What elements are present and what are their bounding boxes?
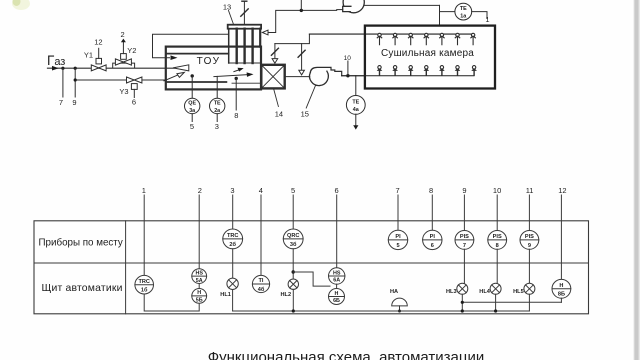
wire TE2a sample arrow <box>214 75 250 77</box>
svg-text:Y1: Y1 <box>84 51 93 60</box>
svg-text:HL3: HL3 <box>446 289 457 295</box>
wire H8B stub <box>560 298 562 302</box>
wire TE4a drop <box>355 76 357 96</box>
wire signal 4 <box>355 114 357 126</box>
wire column 7 <box>397 195 399 230</box>
wire duct into chamber <box>439 5 441 25</box>
wire lamp bus upper <box>462 301 561 303</box>
svg-text:PIS: PIS <box>493 234 502 240</box>
svg-text:PIS: PIS <box>525 234 534 240</box>
valve Y3 <box>119 77 141 107</box>
open arrow down B <box>299 70 305 75</box>
instrument TE 1a <box>440 3 490 24</box>
wire PIS9 to HL5 <box>528 249 530 283</box>
instrument HS 5A <box>192 269 207 284</box>
instrument QRC 3b <box>283 229 303 249</box>
instrument PI 6 <box>423 230 442 249</box>
svg-text:4а: 4а <box>353 107 360 113</box>
svg-text:HL2: HL2 <box>281 292 292 298</box>
wire column 1 <box>143 195 145 275</box>
svg-text:ТЕ: ТЕ <box>352 99 359 105</box>
node bus upper HL3 <box>461 301 464 304</box>
svg-text:9: 9 <box>462 186 466 195</box>
instrument PI 5 <box>388 230 407 249</box>
instrument H 6B <box>329 289 345 305</box>
wire gas main line <box>48 67 175 69</box>
svg-text:12: 12 <box>558 186 566 195</box>
svg-text:TRC: TRC <box>227 233 239 239</box>
svg-text:9: 9 <box>528 243 531 249</box>
fan top exhaust <box>337 0 440 13</box>
nozzle top 1 <box>377 33 382 45</box>
svg-text:PIS: PIS <box>460 234 469 240</box>
drying chamber box <box>365 26 495 89</box>
svg-text:7: 7 <box>59 98 63 107</box>
svg-text:Y2: Y2 <box>127 46 136 55</box>
open arrow left <box>262 30 268 35</box>
wire column 2 <box>198 195 200 269</box>
svg-text:3: 3 <box>230 186 234 195</box>
lamp HL4 <box>479 283 501 295</box>
label 14 leader <box>274 90 279 107</box>
duct inner line <box>167 53 229 55</box>
svg-text:HS: HS <box>195 270 203 276</box>
svg-text:3б: 3б <box>290 241 297 248</box>
svg-text:13: 13 <box>223 3 231 12</box>
svg-text:PI: PI <box>430 234 436 240</box>
svg-text:H: H <box>197 290 201 296</box>
node junction 9 <box>74 67 77 70</box>
node bus lower HL3 <box>461 309 464 312</box>
wire tap 9 <box>74 68 76 97</box>
svg-text:PI: PI <box>395 234 401 240</box>
svg-text:ТЕ: ТЕ <box>460 6 467 12</box>
table row divider <box>34 262 589 264</box>
wire column 6 <box>336 195 338 268</box>
wire to HE right with open arrow <box>268 10 337 32</box>
svg-text:6: 6 <box>431 243 434 249</box>
svg-text:5: 5 <box>291 186 295 195</box>
mixer box 14 <box>261 65 284 89</box>
svg-text:H: H <box>559 283 563 289</box>
nozzle bottom 1 <box>377 66 383 76</box>
wire recirculation loop <box>153 34 229 57</box>
svg-text:HL4: HL4 <box>479 289 490 295</box>
burner nozzle <box>173 65 189 71</box>
wire TRC2b to HL1 <box>232 249 234 278</box>
wire stub 10 <box>347 61 349 76</box>
wire tap 7 <box>62 68 64 97</box>
arrow recirc into TOU <box>171 55 178 60</box>
wire signal 5 <box>191 114 193 122</box>
node junction 7 <box>61 67 64 70</box>
instrument TE 2a <box>210 98 225 113</box>
node HL2 branch <box>292 270 295 273</box>
svg-text:HS: HS <box>333 270 341 276</box>
instrument HS 6A <box>329 268 345 284</box>
svg-text:2а: 2а <box>214 108 221 114</box>
tick top <box>242 0 247 2</box>
svg-text:5: 5 <box>190 122 194 131</box>
svg-text:7: 7 <box>396 186 400 195</box>
svg-text:11: 11 <box>526 186 534 195</box>
instrument QE 3a <box>185 98 200 113</box>
wire bypass line <box>75 79 165 81</box>
wire slashed drop B <box>301 44 303 70</box>
table label column divider <box>125 221 127 314</box>
wire signal 3 <box>216 114 218 122</box>
nozzle top 6 <box>455 33 460 45</box>
wire column 11 <box>528 195 530 231</box>
slash electric <box>241 9 248 16</box>
svg-text:1б: 1б <box>141 287 148 294</box>
wire PIS7 to HL3 <box>463 249 465 283</box>
instrument H 8B <box>552 279 571 298</box>
svg-text:ТЕ: ТЕ <box>214 101 221 107</box>
wire fan to chamber <box>342 75 365 77</box>
fan 15 <box>310 67 342 85</box>
table frame <box>34 221 589 314</box>
svg-text:HL1: HL1 <box>220 292 231 298</box>
svg-text:Функциональная схема автомати: Функциональная схема автоматизации <box>208 349 485 360</box>
nozzle bottom 4 <box>424 66 430 76</box>
wire bottom air header <box>342 75 474 77</box>
svg-text:Сушильная камера: Сушильная камера <box>381 48 474 59</box>
wire HL2 down to bus <box>292 289 294 311</box>
node QE pickup <box>191 74 194 77</box>
wire signal up from HE <box>243 1 245 24</box>
svg-text:Щит автоматики: Щит автоматики <box>42 283 123 294</box>
label 15 leader <box>306 86 315 108</box>
wire TOU to mixbox <box>232 82 262 84</box>
svg-text:2б: 2б <box>229 241 236 248</box>
svg-text:2: 2 <box>198 186 202 195</box>
wire HL5 down <box>528 294 530 311</box>
svg-text:HL5: HL5 <box>513 289 524 295</box>
TOU box <box>166 47 261 90</box>
svg-text:4б: 4б <box>258 286 265 293</box>
lamp HL2 <box>281 279 299 298</box>
valve Y2 <box>113 30 137 67</box>
air arrow diagonal <box>164 75 178 81</box>
nozzle top 4 <box>424 33 429 45</box>
svg-text:H: H <box>335 291 339 297</box>
svg-text:TI: TI <box>259 278 264 284</box>
svg-text:15: 15 <box>301 110 309 119</box>
svg-text:14: 14 <box>275 110 283 119</box>
node junction 10 <box>346 74 349 77</box>
nozzle bottom 5 <box>439 66 445 76</box>
open arrow down A <box>272 59 278 64</box>
svg-text:Газ: Газ <box>47 53 65 68</box>
svg-text:ТОУ: ТОУ <box>197 56 221 67</box>
instrument PIS 9 <box>520 231 539 250</box>
small flow arrow <box>234 69 241 71</box>
wire column 10 <box>496 195 498 231</box>
svg-text:4: 4 <box>259 186 263 195</box>
svg-text:3: 3 <box>215 122 219 131</box>
instrument TE 4a <box>346 96 365 115</box>
svg-text:5А: 5А <box>196 278 203 284</box>
wire QRC3b to HL2 <box>292 249 294 279</box>
node junction top <box>300 9 303 12</box>
lamp HL5 <box>513 283 535 295</box>
gas flow arrow <box>52 66 59 71</box>
wire HS6A to H6b <box>336 284 338 288</box>
wire top spray header <box>309 33 473 35</box>
wire HL4 down <box>495 294 497 311</box>
wire signal 8 <box>235 78 237 110</box>
wire lamp bus lower <box>233 310 530 312</box>
wire stub up <box>300 0 302 10</box>
svg-text:TRC: TRC <box>138 279 150 285</box>
wire PIS8 to HL4 <box>496 249 498 283</box>
wire column 5 <box>292 195 294 229</box>
svg-text:Приборы по месту: Приборы по месту <box>39 238 123 249</box>
wire HL1 down to bus <box>232 290 234 312</box>
wire column 8 <box>431 195 433 230</box>
svg-text:10: 10 <box>493 186 501 195</box>
horn HA <box>390 289 407 313</box>
instrument TRC 2b <box>223 229 243 249</box>
svg-text:6А: 6А <box>333 278 340 284</box>
svg-text:10: 10 <box>344 55 352 62</box>
svg-text:5Б: 5Б <box>196 298 203 304</box>
instrument TI 4b <box>252 275 269 293</box>
wire mixbox to fan <box>285 76 310 78</box>
nozzle top 2 <box>392 33 397 45</box>
wire sensor net to dampers <box>275 34 310 43</box>
svg-text:6Б: 6Б <box>333 298 340 304</box>
nozzle top 5 <box>439 33 444 45</box>
svg-text:8: 8 <box>496 243 499 249</box>
svg-text:9: 9 <box>72 98 76 107</box>
svg-text:8: 8 <box>429 186 433 195</box>
nozzle top 3 <box>408 33 413 45</box>
svg-text:QRC: QRC <box>287 233 299 239</box>
cursor smudge top-left <box>12 0 30 10</box>
node junction bypass <box>74 78 77 81</box>
wire HL3 down <box>461 294 463 311</box>
svg-text:3а: 3а <box>189 108 196 114</box>
nozzle bottom 7 <box>471 66 477 76</box>
svg-text:1: 1 <box>485 15 489 24</box>
svg-text:QE: QE <box>188 101 196 107</box>
nozzle bottom 6 <box>455 66 461 76</box>
svg-text:1: 1 <box>142 186 146 195</box>
nozzle bottom 2 <box>392 66 398 76</box>
wire branch to HS6A <box>293 272 330 286</box>
wire QE sample <box>191 76 193 98</box>
lamp HL3 <box>446 283 468 295</box>
label 13 leader <box>229 11 234 25</box>
node bus lower HL4 <box>494 309 497 312</box>
wire HS5A to H5b <box>198 284 200 289</box>
svg-text:HA: HA <box>390 289 398 295</box>
svg-text:8: 8 <box>234 111 238 120</box>
instrument PIS 8 <box>488 231 507 250</box>
instrument H 5B <box>192 289 207 304</box>
svg-text:1а: 1а <box>460 14 467 20</box>
wire column 12 <box>560 195 562 280</box>
wire slashed drop A <box>274 44 276 58</box>
valve Y1 <box>84 38 106 71</box>
svg-text:8Б: 8Б <box>558 292 565 298</box>
heat exchanger 13 <box>228 25 261 63</box>
svg-text:6: 6 <box>335 186 339 195</box>
svg-text:5: 5 <box>396 243 399 249</box>
node bus lower HL2 <box>292 309 295 312</box>
svg-text:6: 6 <box>132 98 136 107</box>
arrow signal 4 down <box>353 125 358 129</box>
wire column 9 <box>463 195 465 231</box>
wire column 3 <box>232 195 234 229</box>
svg-text:12: 12 <box>94 38 102 47</box>
svg-text:2: 2 <box>121 30 125 39</box>
wire TRC1b U-link to H5b <box>144 294 199 311</box>
instrument TRC 1b <box>135 275 154 294</box>
node pickup 8 <box>235 77 238 80</box>
svg-text:Y3: Y3 <box>119 87 128 96</box>
svg-text:7: 7 <box>463 243 466 249</box>
instrument PIS 7 <box>455 231 474 250</box>
wire column 4 <box>260 195 262 275</box>
inner hearth line <box>167 81 227 83</box>
right scrollbar strip <box>634 0 640 360</box>
nozzle top 7 <box>470 33 475 45</box>
nozzle bottom 3 <box>408 66 414 76</box>
lamp HL1 <box>220 278 238 298</box>
